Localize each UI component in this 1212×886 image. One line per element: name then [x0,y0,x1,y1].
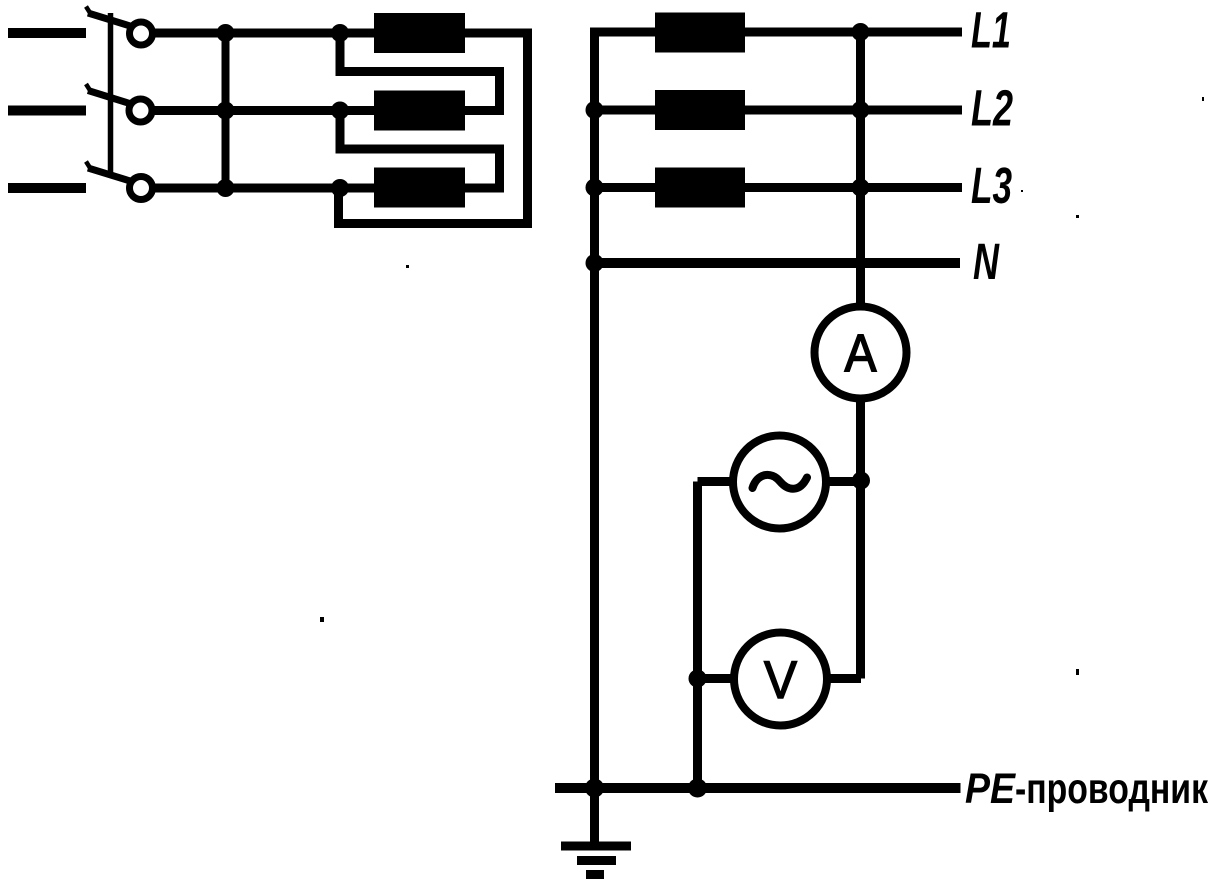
svg-text:N: N [973,233,1000,290]
switch Q1 pole 3 lever [86,162,134,183]
node tie bus phase 1 [217,24,235,42]
heating element EK1 [374,13,465,53]
node L3 tap [852,179,870,197]
wire generator right lead [826,477,860,486]
svg-text:L3: L3 [971,157,1012,214]
switch Q1 pole 1 contact circle [130,22,153,45]
wire phase 3 from switch to heater [154,184,374,193]
node delta junction phase 3 [331,179,349,197]
wire line N [595,258,961,268]
heating element EK3 [374,168,465,208]
switch Q1 pole 3 contact circle [130,177,153,200]
wire vertical tie bus [222,33,230,188]
svg-text:V: V [764,651,798,710]
switch Q1 pole 2 lever [86,84,133,105]
switch mechanical link [108,13,114,174]
speck [406,265,409,268]
svg-text:L2: L2 [971,80,1013,137]
voltmeter PV1 [734,633,827,726]
wire input stub phase 3 [8,183,86,193]
node tie bus phase 2 [217,102,235,120]
wire L1 tap down to ammeter [856,32,865,309]
wire delta link EK2 right to phase 1 [340,33,500,111]
fuse FU1 [655,13,745,53]
wire generator left lead [698,477,734,486]
node L2 tap [852,101,870,119]
svg-text:A: A [845,324,878,383]
wire PE conductor [555,783,961,793]
speck [320,617,324,622]
wire phase 2 from switch to heater [154,106,374,115]
svg-text:PE: PE [965,765,1016,813]
speck [1202,97,1204,101]
node voltmeter branch PE [688,779,707,798]
fuse FU3 [655,168,745,208]
node generator output [852,472,870,490]
ammeter PA1 [815,307,907,399]
switch Q1 pole 2 contact circle [129,99,152,122]
node bus L2 [586,101,604,119]
svg-text:L1: L1 [971,2,1011,59]
wire voltmeter left lead [698,674,735,683]
wire delta link EK3 right to phase 2 [340,111,500,189]
node bus N [586,254,604,272]
wire input stub phase 2 [8,106,86,116]
wire phase 1 from switch to heater [154,29,374,38]
speck [1021,190,1023,192]
wire line L1 [590,28,962,37]
node voltmeter left [689,670,707,688]
wire PEN bus vertical [590,32,599,846]
label PE-проводник [965,765,1208,813]
node bus L3 [586,179,604,197]
node tie bus phase 3 [217,179,235,197]
wire voltmeter right lead [827,674,861,683]
wire delta loop EK1 right to phase 3 [339,33,528,224]
wire generator left branch down to PE [693,482,702,789]
node delta junction phase 2 [331,102,349,120]
wire line L3 [595,183,963,192]
speck [1076,669,1079,675]
svg-text:-проводник: -проводник [1015,765,1208,813]
ground [561,846,631,875]
wire input stub phase 1 [8,28,86,38]
switch Q1 pole 1 lever [86,7,134,28]
speck [1076,215,1079,218]
wire ammeter to voltmeter branch [856,399,865,679]
node L1 tap [852,23,870,41]
node bus PE [585,779,604,798]
node delta junction phase 1 [331,24,349,42]
heating element EK2 [374,91,465,131]
generator G1 [733,436,826,529]
wire line L2 [595,106,963,115]
fuse FU2 [655,90,745,130]
